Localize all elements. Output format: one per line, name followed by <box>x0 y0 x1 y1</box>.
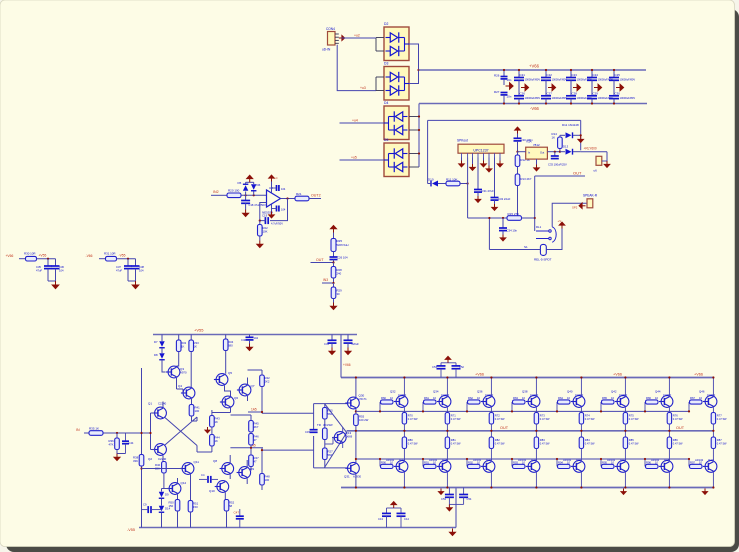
wire bias lower <box>324 440 326 449</box>
ground arrow diodes <box>247 175 253 182</box>
wire feedback down <box>270 199 288 221</box>
wire input IN <box>84 432 151 434</box>
wire Q30 emitter to R55 <box>355 409 357 414</box>
wire bias top edge <box>314 403 347 405</box>
connector J2 relay power <box>606 152 608 161</box>
svg-text:SP2: SP2 <box>572 206 578 210</box>
capacitor C19 feedback <box>265 217 268 224</box>
transistor Q1 diff <box>152 407 166 419</box>
svg-text:A970: A970 <box>180 370 187 374</box>
svg-text:10000uF/80V: 10000uF/80V <box>525 96 541 100</box>
svg-text:D5: D5 <box>384 138 388 142</box>
transistor Q38 output npn <box>526 396 540 408</box>
svg-text:Q10: Q10 <box>209 489 215 493</box>
svg-text:+V66: +V66 <box>613 373 622 377</box>
resistor R97 base pnp <box>688 459 690 466</box>
wire Q45 collector <box>668 472 670 487</box>
svg-text:0.47 5W: 0.47 5W <box>540 441 550 445</box>
svg-text:0.47 5W: 0.47 5W <box>629 417 639 421</box>
wire Q13 collector emitter <box>342 427 344 432</box>
svg-text:A1943: A1943 <box>473 458 482 462</box>
power arrow -V66 b <box>621 489 626 495</box>
wire Q35 collector <box>446 472 448 487</box>
wire bias mid <box>324 419 326 428</box>
ground C32 <box>492 204 498 210</box>
wire bridge D5 outputs join vertical <box>409 153 419 155</box>
ground divider <box>333 299 335 303</box>
wire divider node OUT <box>333 260 335 263</box>
connector J3 speaker <box>587 199 593 208</box>
resistor R41 <box>189 405 194 417</box>
transistor Q39 output pnp <box>526 461 540 473</box>
transistor Q7 vas top <box>237 384 251 396</box>
svg-text:+RLY600: +RLY600 <box>584 147 597 151</box>
svg-text:Q41: Q41 <box>576 458 582 462</box>
capacitor C41 rail filter <box>331 335 333 340</box>
ground arrow cap column 4 <box>594 84 602 91</box>
transistor Q10 vas lower <box>215 481 229 493</box>
svg-text:OUT: OUT <box>316 258 324 262</box>
svg-text:OUT: OUT <box>676 426 685 430</box>
svg-text:10000uF/80V: 10000uF/80V <box>552 78 568 82</box>
svg-text:R25: R25 <box>337 239 343 243</box>
resistor R81 emitter pnp <box>445 437 449 449</box>
svg-text:IN2: IN2 <box>213 190 219 194</box>
capacitor C40 rail bypass <box>249 335 251 337</box>
svg-text:Q31: Q31 <box>344 475 350 479</box>
svg-text:C26: C26 <box>520 91 526 95</box>
svg-text:+u3: +u3 <box>360 86 366 90</box>
resistor R72 emitter npn <box>489 413 493 425</box>
svg-text:R67: R67 <box>690 396 695 400</box>
resistor R49 <box>175 500 180 512</box>
svg-text:1K: 1K <box>181 344 185 348</box>
ground rail decouple low <box>447 504 453 510</box>
resistor R65 base npn <box>600 402 602 411</box>
bridge D3 internal wires <box>386 76 391 78</box>
svg-text:68: 68 <box>229 504 233 508</box>
ground C34 <box>502 231 504 235</box>
transistor Q47 output pnp <box>703 461 717 473</box>
svg-text:10000uF/80V: 10000uF/80V <box>620 78 636 82</box>
wire R49 to rail <box>177 511 179 528</box>
diode D9 bias lower <box>161 489 163 492</box>
resistor R66 base npn <box>644 402 646 411</box>
wire Q40 collector <box>580 378 582 396</box>
resistor R31 10R <box>106 256 117 261</box>
resistor R42 <box>260 375 265 387</box>
diode D14 bias lower <box>161 499 163 506</box>
svg-text:C21: C21 <box>520 73 526 77</box>
svg-text:10: 10 <box>390 396 393 400</box>
svg-text:C32 22uF: C32 22uF <box>498 197 511 201</box>
ground C31 <box>475 196 481 202</box>
wire filter node <box>117 258 136 260</box>
wire connector to bridge D2 <box>342 37 377 39</box>
wire U2 pin6 to coil <box>488 218 490 250</box>
svg-text:Q39: Q39 <box>531 458 537 462</box>
transistor Q35 output pnp <box>437 461 451 473</box>
ground arrow cap column 3 <box>573 84 581 91</box>
wire bias bottom <box>324 460 326 468</box>
svg-text:C2240: C2240 <box>158 402 167 406</box>
svg-text:u6: u6 <box>594 169 598 173</box>
svg-text:4K7: 4K7 <box>254 425 259 429</box>
capacitor C20 snubber column <box>503 70 505 76</box>
svg-text:C52: C52 <box>459 365 464 369</box>
resistor R82 emitter pnp <box>489 437 493 449</box>
wire R47 to Q9 <box>250 467 252 471</box>
svg-text:1K: 1K <box>194 344 198 348</box>
svg-text:D2: D2 <box>384 22 388 26</box>
svg-text:R21: R21 <box>296 192 302 196</box>
resistor R94 base pnp <box>556 459 558 466</box>
wire Q12 base <box>162 488 169 490</box>
diode D8 bias <box>161 348 163 353</box>
svg-text:-V55: -V55 <box>127 528 135 532</box>
svg-text:R20 100: R20 100 <box>228 189 240 193</box>
svg-text:104: 104 <box>281 208 286 212</box>
svg-text:C47: C47 <box>234 511 240 515</box>
capacitor C24 filter pair <box>591 70 593 77</box>
svg-text:10: 10 <box>567 396 570 400</box>
wire relay supply vertical <box>580 120 582 150</box>
svg-text:R63: R63 <box>513 396 518 400</box>
svg-text:C31 47uF: C31 47uF <box>482 189 495 193</box>
capacitor C42 rail filter <box>347 335 349 340</box>
wire Q34 emitter <box>446 407 448 412</box>
transistor Q13 vbe multiplier <box>332 432 346 444</box>
ground C41 <box>331 343 333 347</box>
svg-text:1A5: 1A5 <box>251 408 257 412</box>
svg-text:4.7uF/50V: 4.7uF/50V <box>271 222 283 226</box>
svg-text:C18 47uF/50V: C18 47uF/50V <box>249 203 267 207</box>
svg-text:+C: +C <box>274 176 278 180</box>
capacitor C23 filter pair <box>570 70 572 77</box>
svg-text:C3280: C3280 <box>575 393 584 397</box>
svg-text:30: 30 <box>337 292 341 296</box>
wire Q3 emitter <box>176 378 178 389</box>
wire to OUT2 <box>309 198 321 200</box>
bridge rectifier D2 <box>384 27 409 61</box>
wire C45 left <box>199 478 208 480</box>
resistor R48 <box>260 474 265 486</box>
ground U2 pin1 <box>461 158 463 161</box>
transistor Q40 output npn <box>571 396 585 408</box>
diode D10 input <box>431 181 438 187</box>
resistor R75 emitter npn <box>623 413 627 425</box>
wire Q46 emitter <box>712 407 714 412</box>
svg-text:C2240: C2240 <box>158 457 167 461</box>
resistor R44 <box>210 435 215 447</box>
svg-text:Q40: Q40 <box>567 389 573 393</box>
svg-text:Q6: Q6 <box>234 396 238 400</box>
svg-text:47: 47 <box>254 438 258 442</box>
svg-text:104: 104 <box>59 268 64 272</box>
svg-text:0.47 5W: 0.47 5W <box>408 417 418 421</box>
resistor R13 <box>515 174 520 186</box>
svg-text:0.47 5W: 0.47 5W <box>673 441 683 445</box>
wire -V66 bottom rail <box>419 103 647 105</box>
wire R48 <box>261 450 263 473</box>
wire Q7 leads <box>247 378 249 385</box>
wire R15 to relay node <box>522 217 535 219</box>
svg-text:C14: C14 <box>404 517 409 521</box>
wire R85 to Q43 emitter <box>624 449 626 461</box>
wire R70 to OUT <box>403 424 405 437</box>
wire rail join to output stage <box>455 488 457 528</box>
svg-text:Q7: Q7 <box>251 384 255 388</box>
resistor R95 base pnp <box>600 459 602 466</box>
resistor R74 emitter npn <box>579 413 583 425</box>
svg-text:C3280: C3280 <box>485 393 494 397</box>
svg-text:47uF: 47uF <box>36 268 42 272</box>
wire Q31 collector <box>355 474 357 487</box>
svg-text:TR: TR <box>317 423 321 427</box>
diode D2-b <box>390 46 399 56</box>
svg-text:D5: D5 <box>238 181 242 185</box>
bridge rectifier D5 <box>384 143 409 177</box>
wire driver to Q31 emitter <box>355 436 357 462</box>
resistor R43 <box>210 416 215 428</box>
wire regulator input <box>518 151 526 153</box>
op-amp U2 UPC1237 protection IC <box>458 144 504 153</box>
svg-text:1K: 1K <box>215 420 219 424</box>
wire R45 R46 chain <box>250 415 252 421</box>
wire PNP base bus <box>356 458 689 460</box>
wire Q36 collector <box>490 378 492 396</box>
wire R84 to Q41 emitter <box>580 449 582 461</box>
capacitor C25 filter pair <box>613 70 615 77</box>
resistor R76 emitter npn <box>667 413 671 425</box>
capacitor C32 on U2 pin7 <box>494 158 496 198</box>
svg-text:S1: S1 <box>524 245 528 249</box>
resistor R11 <box>446 181 460 186</box>
wire diode tops <box>245 182 247 184</box>
svg-text:Q33: Q33 <box>399 458 405 462</box>
wire Q6 emitter to bias <box>230 408 232 413</box>
svg-text:Q38: Q38 <box>522 389 528 393</box>
svg-text:Q47: Q47 <box>708 458 714 462</box>
wire R83 to Q39 emitter <box>535 449 537 461</box>
svg-text:C4: C4 <box>201 473 205 477</box>
wire R32 to Q3 <box>177 352 179 367</box>
resistor R67 base npn <box>688 402 690 411</box>
svg-text:R13 4K7: R13 4K7 <box>521 177 532 181</box>
svg-text:SPEAK-R: SPEAK-R <box>583 194 598 198</box>
transistor Q32 output npn <box>394 396 408 408</box>
svg-text:10: 10 <box>433 396 436 400</box>
svg-text:REL-5-SPDT: REL-5-SPDT <box>534 258 552 262</box>
resistor R73 emitter npn <box>534 413 538 425</box>
svg-text:-V55: -V55 <box>119 254 126 258</box>
capacitor C21 filter pair <box>518 70 520 77</box>
wire R50 to rail <box>190 512 192 528</box>
power arrow +12V node <box>515 127 521 133</box>
wire Q30 collector <box>355 378 357 398</box>
wire op-amp output <box>281 198 296 200</box>
diode D4-b <box>394 125 403 135</box>
svg-text:100: 100 <box>195 409 200 413</box>
svg-text:+V: +V <box>558 219 562 223</box>
wire +V66 top rail <box>419 69 647 71</box>
regulator U3 7812 <box>526 147 548 159</box>
wire Q2 emitter to tail <box>162 455 164 461</box>
svg-text:Q12: Q12 <box>181 481 187 485</box>
svg-text:C30: C30 <box>615 91 621 95</box>
wire Q44 collector <box>668 378 670 396</box>
wire R15 rail <box>468 217 507 219</box>
svg-text:D7: D7 <box>154 340 158 344</box>
capacitor C30 bypass <box>517 134 519 138</box>
wire AC input to bridge D5 <box>340 159 385 161</box>
ground connector J2 <box>602 160 607 162</box>
resistor R36 shunt <box>116 432 118 434</box>
wire bridge AC to protection supply <box>427 120 429 183</box>
resistor R27 divider <box>333 283 335 287</box>
resistor R55 driver <box>354 414 359 426</box>
svg-text:C51: C51 <box>432 365 437 369</box>
wire diff cross couple <box>165 418 197 446</box>
svg-text:OUT: OUT <box>573 171 582 176</box>
diode D5 clamp <box>245 192 247 196</box>
bridge rectifier D4 <box>384 106 409 140</box>
resistor R86 emitter pnp <box>667 437 671 449</box>
capacitor C33 output <box>554 151 556 153</box>
svg-text:10000uF/80V: 10000uF/80V <box>620 96 636 100</box>
wire +V55 top rail <box>153 334 357 336</box>
resistor R96 base pnp <box>644 459 646 466</box>
wire R72 to OUT <box>490 424 492 437</box>
wire R42 top <box>261 370 263 375</box>
svg-text:3K3/3W: 3K3/3W <box>323 423 333 427</box>
resistor R51 <box>224 500 229 512</box>
op-amp power rails <box>271 182 273 193</box>
transistor Q30 driver NPN <box>345 397 359 409</box>
power arrow op-amp + <box>269 175 275 181</box>
wire Q38 collector <box>535 378 537 396</box>
svg-text:Q42: Q42 <box>611 389 617 393</box>
wire R71 to OUT <box>446 424 448 437</box>
svg-text:V3A: V3A <box>526 140 532 144</box>
wire AC input to bridge D4 <box>340 122 385 124</box>
wire diff bases <box>150 413 152 450</box>
svg-text:C3280: C3280 <box>530 393 539 397</box>
wire bridge D4 outputs to -rail <box>409 116 419 118</box>
ground arrow cap column 0 <box>506 83 514 90</box>
resistor R14 <box>559 149 561 152</box>
wire Q11 emitter down <box>190 474 192 500</box>
svg-text:D6: D6 <box>257 183 261 187</box>
capacitor C31 on U2 pin4 <box>477 158 479 190</box>
wire Q38 emitter <box>535 407 537 412</box>
svg-text:R26: R26 <box>494 74 500 78</box>
wire Q37 collector <box>490 472 492 487</box>
capacitor C16 bypass top <box>277 185 279 191</box>
diode D5-a <box>394 148 403 158</box>
ground U2 pin6 <box>488 158 490 166</box>
capacitor C43 shunt <box>125 433 127 441</box>
resistor R62 base npn <box>466 402 468 411</box>
svg-text:2K2: 2K2 <box>265 379 270 383</box>
capacitor C22 filter pair <box>545 70 547 77</box>
wire X to R41 node <box>196 417 198 421</box>
resistor R92 base pnp <box>466 459 468 466</box>
svg-text:Q32: Q32 <box>390 389 396 393</box>
resistor R45 <box>249 421 254 433</box>
transistor Q33 output pnp <box>394 461 408 473</box>
svg-text:150: 150 <box>193 505 198 509</box>
svg-text:R31 10R: R31 10R <box>104 252 115 256</box>
wire Q47 collector <box>712 472 714 487</box>
svg-text:100 2W: 100 2W <box>359 418 369 422</box>
wire R86 to Q45 emitter <box>668 449 670 461</box>
svg-text:560: 560 <box>328 412 333 416</box>
svg-text:R55: R55 <box>359 415 365 419</box>
resistor R12 <box>517 152 519 155</box>
wire bias bottom edge <box>314 467 347 469</box>
wire bias triangle edges <box>325 404 347 433</box>
svg-text:C5171: C5171 <box>359 397 368 401</box>
wire Q34 collector <box>446 378 448 396</box>
transistor Q41 output pnp <box>571 461 585 473</box>
svg-text:R15 27K: R15 27K <box>508 212 520 216</box>
svg-text:C19: C19 <box>262 214 268 218</box>
svg-text:Q37: Q37 <box>486 458 492 462</box>
wire bridge D3 input pins <box>376 76 384 78</box>
transistor Q5 cascode <box>214 374 228 386</box>
transistor Q2 diff <box>152 444 166 456</box>
ground regulator <box>536 159 538 164</box>
wire input IN2 <box>211 194 227 196</box>
wire bias string <box>211 410 213 416</box>
ground filter <box>52 281 59 289</box>
wire VAS lower to bias block <box>262 449 314 451</box>
power arrow speaker return <box>579 203 585 209</box>
resistor R77 emitter npn <box>711 413 715 425</box>
svg-text:104: 104 <box>139 268 144 272</box>
transistor Q6 <box>220 396 234 408</box>
svg-text:C24: C24 <box>593 73 599 77</box>
wire C30 to regulator input <box>517 141 519 152</box>
wire NPN base bus <box>356 410 689 412</box>
svg-text:+u2: +u2 <box>354 34 360 38</box>
ground R22 <box>259 236 261 241</box>
svg-text:Q4: Q4 <box>178 384 182 388</box>
resistor R20 <box>227 193 241 198</box>
wire feedback to inverting input <box>260 203 267 221</box>
svg-text:SPKout: SPKout <box>457 139 468 143</box>
resistor R80 emitter pnp <box>402 437 406 449</box>
wire filter node <box>37 258 56 260</box>
svg-text:OUT: OUT <box>500 426 509 430</box>
wire Q44 emitter <box>668 407 670 412</box>
wire X lower to bias string <box>196 446 198 453</box>
svg-text:A1943: A1943 <box>518 458 527 462</box>
svg-text:A1943: A1943 <box>695 458 704 462</box>
svg-text:Q8: Q8 <box>213 459 217 463</box>
transistor Q44 output npn <box>659 396 673 408</box>
svg-text:C9: C9 <box>143 503 147 507</box>
svg-text:C3280: C3280 <box>619 393 628 397</box>
resistor R15 <box>507 216 522 221</box>
diode D2-a <box>390 32 399 42</box>
ground U2 pin8 <box>499 158 501 161</box>
svg-text:0.47 5W: 0.47 5W <box>408 441 418 445</box>
capacitor C34 <box>502 217 504 219</box>
ground C40 <box>249 340 251 344</box>
svg-text:UPC1237: UPC1237 <box>473 148 488 152</box>
